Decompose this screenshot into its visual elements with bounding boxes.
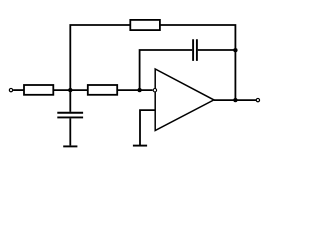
op-amp inverting input bubble [153, 89, 156, 92]
output terminal [256, 98, 259, 101]
wire input to R1 [13, 89, 24, 91]
resistor R3 (top feedback) [130, 20, 160, 30]
junction dot C2/R3 feedback [233, 48, 237, 52]
wire R2 to op-amp inverting input [117, 89, 152, 91]
node A junction dot [68, 88, 72, 92]
op-amp U1 triangle [155, 69, 214, 131]
wire C2 to right vertical [198, 49, 236, 51]
resistor R1 [24, 85, 53, 95]
wire R3 to right vertical down to output node [160, 25, 236, 100]
output node junction dot [233, 98, 237, 102]
capacitor C1 bottom lead [69, 118, 71, 145]
node B junction dot [137, 88, 141, 92]
capacitor C2 plates [193, 39, 197, 61]
wire node B up to C2 [140, 50, 193, 90]
wire non-inverting input to ground [140, 110, 155, 145]
input terminal [9, 88, 12, 91]
ground under op-amp [133, 145, 147, 147]
wire R1 to R2 through node A [53, 89, 88, 91]
resistor R2 [88, 85, 117, 95]
capacitor C1 plates [57, 113, 83, 118]
capacitor C1 top lead [69, 90, 71, 112]
wire op-amp output to terminal [214, 99, 256, 101]
wire node A up and top wire to R3 [70, 25, 130, 90]
ground under C1 [63, 145, 77, 147]
